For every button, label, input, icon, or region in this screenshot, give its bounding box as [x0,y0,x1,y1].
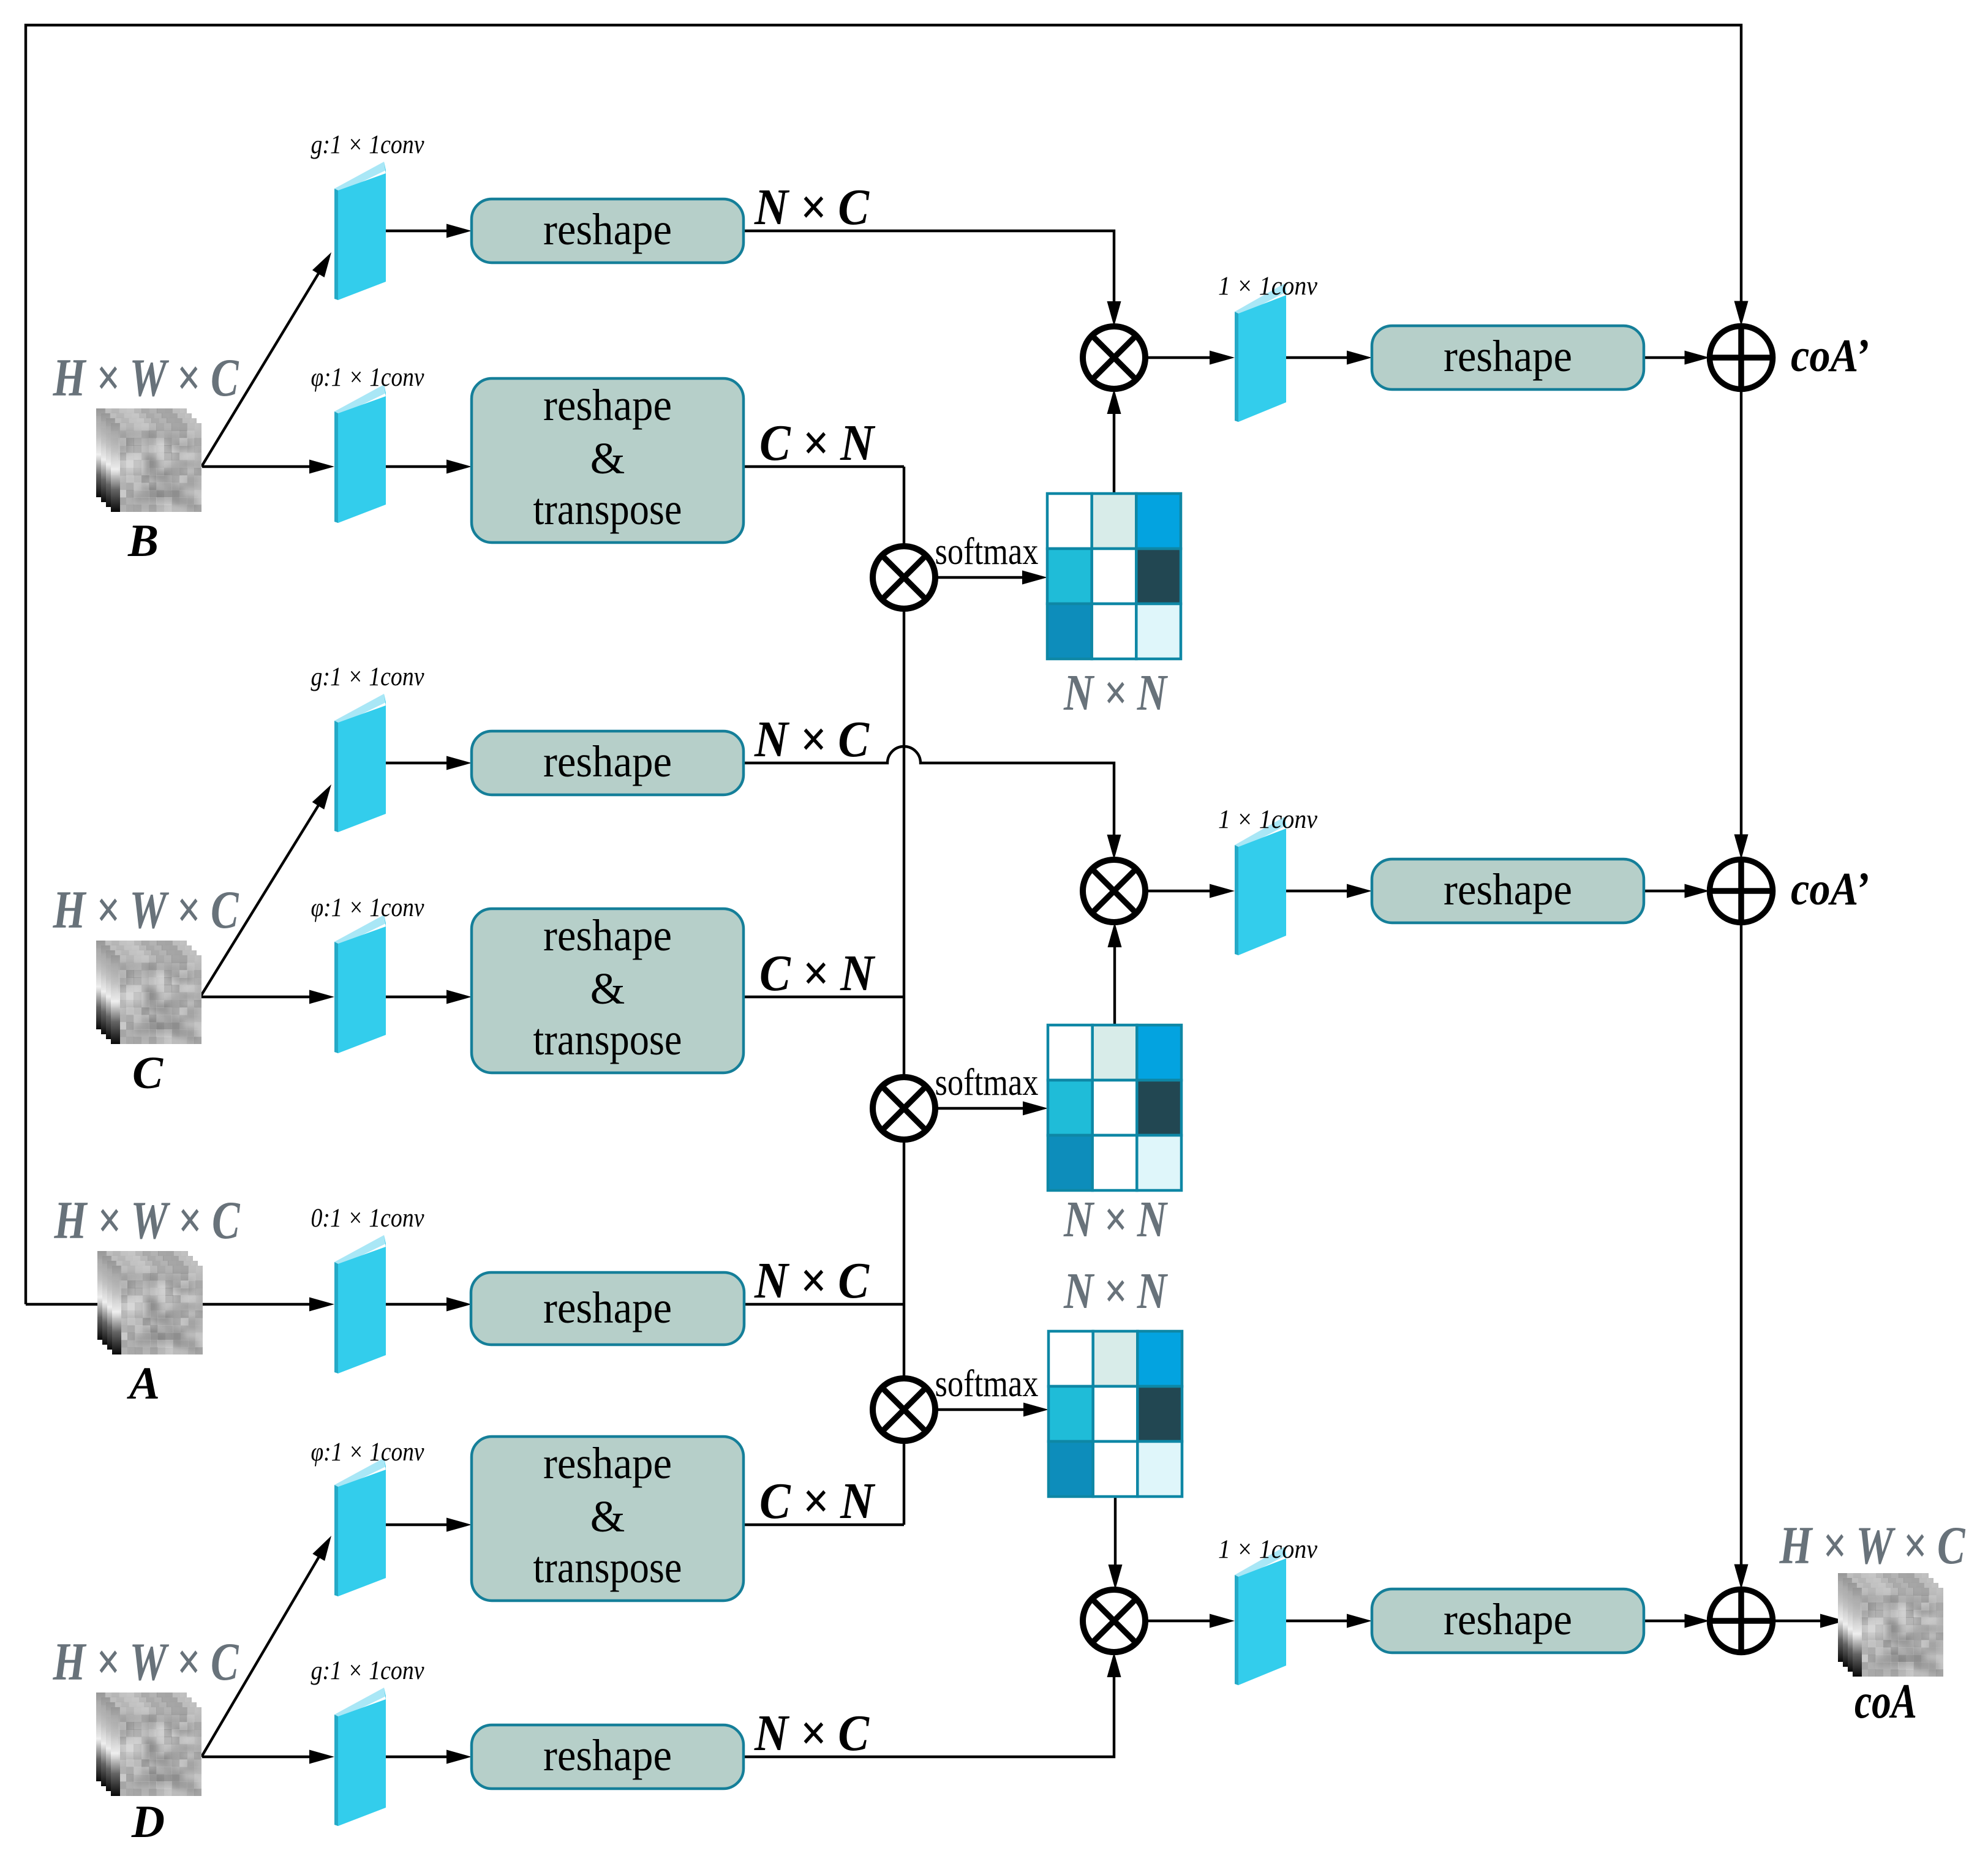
multiply node X2 (C softmax) [873,1077,935,1140]
add node row1 [1710,326,1773,389]
wire plus column row1 to row2 [1740,389,1742,836]
arrow B stack to φ conv slab [202,465,310,468]
conv slab φ (D) [334,1458,386,1596]
arrow row3 1×1conv slab to reshape [1286,1620,1347,1622]
svg-text:transpose: transpose [533,1542,682,1592]
wire C transpose C×N joins vertical line [744,996,904,998]
svg-text:g:1 × 1conv: g:1 × 1conv [311,1656,425,1685]
svg-text:reshape: reshape [543,911,672,960]
add node row3 [1710,1590,1773,1653]
svg-text:1 × 1conv: 1 × 1conv [1218,1535,1318,1564]
svg-text:reshape: reshape [1444,1595,1572,1644]
wire matrix1 up into row-1 multiply [1113,412,1115,494]
arrow θ slab to reshape (A) [386,1303,447,1306]
svg-text:0:1 × 1conv: 0:1 × 1conv [311,1204,425,1233]
arrow g slab to reshape (C) [386,762,447,764]
arrow φ slab to reshape&transpose (D) [386,1523,447,1526]
reshape box (row3) [1372,1589,1644,1653]
svg-text:reshape: reshape [1444,331,1572,381]
reshape box (B g) [472,199,744,263]
svg-text:A: A [127,1358,160,1409]
arrow softmax row2 into matrix2 [935,1107,1023,1110]
reshape & transpose box (D) [472,1437,744,1601]
svg-text:coA’: coA’ [1791,330,1869,381]
reshape box (C g) [472,731,744,795]
arrow C stack to φ conv slab [201,996,310,998]
wire D transpose C×N joins vertical line bottom [744,1523,904,1526]
reshape & transpose box (C) [472,909,744,1073]
wire A input from left rail [26,1303,153,1306]
conv slab 1×1 (row3) [1235,1547,1286,1685]
arrow A stack to θ conv slab [202,1303,310,1306]
reshape box (D g) [472,1725,744,1789]
svg-text:φ:1 × 1conv: φ:1 × 1conv [311,363,425,392]
svg-text:H × W × C: H × W × C [53,348,239,408]
svg-text:N × C: N × C [754,1705,870,1762]
svg-text:1 × 1conv: 1 × 1conv [1218,272,1318,301]
input stack B [91,405,213,517]
arrow C stack diagonal to g conv slab [200,804,319,997]
arrow row2 reshape to plus [1644,890,1685,892]
wire B transpose C×N into vertical line [744,465,904,468]
add node row2 [1710,860,1773,923]
svg-text:reshape: reshape [543,1730,672,1780]
svg-text:N × N: N × N [1063,1263,1168,1320]
arrow g slab to reshape (D) [386,1756,447,1758]
reshape & transpose box (B) [472,378,744,543]
svg-text:C × N: C × N [759,1473,876,1530]
arrow B stack diagonal to g conv slab [201,272,319,467]
wire C reshape N×C with bridge over vertical line to row-2 multiply [745,746,1114,836]
svg-text:B: B [127,516,159,566]
arrow plus row3 to coA stack [1773,1620,1821,1622]
svg-text:N × C: N × C [754,179,870,236]
reshape box (row2) [1372,859,1644,923]
svg-text:H × W × C: H × W × C [1779,1516,1966,1576]
svg-text:&: & [590,964,625,1013]
svg-text:φ:1 × 1conv: φ:1 × 1conv [311,1438,425,1467]
svg-text:coA’: coA’ [1791,863,1869,915]
svg-text:N × C: N × C [754,1252,870,1309]
arrow row1 reshape to plus [1644,356,1685,359]
arrow softmax row3 into matrix3 [935,1408,1024,1411]
svg-text:N × N: N × N [1063,1191,1168,1248]
svg-text:H × W × C: H × W × C [53,881,239,940]
svg-text:&: & [590,1492,625,1541]
wire plus column row2 to row3 [1740,923,1742,1566]
attention matrix N×N row3 [1049,1331,1182,1497]
arrow row2 1×1conv slab to reshape [1286,890,1347,892]
arrow softmax row1 into matrix1 [935,576,1023,579]
arrow φ slab to reshape&transpose (B) [386,465,447,468]
svg-text:H × W × C: H × W × C [53,1632,239,1692]
svg-text:φ:1 × 1conv: φ:1 × 1conv [311,893,425,922]
multiply node row2 output [1083,860,1145,922]
svg-text:softmax: softmax [935,531,1039,573]
svg-text:reshape: reshape [543,1438,672,1488]
svg-text:C × N: C × N [759,945,876,1002]
wire top feedback from A to coA output column [26,25,1741,1304]
arrow φ slab to reshape&transpose (C) [386,996,447,998]
svg-text:reshape: reshape [543,737,672,786]
arrow row3 multiply to 1×1conv slab [1145,1620,1210,1622]
wire matrix3 down into row-3 multiply [1114,1497,1116,1566]
attention matrix N×N row1 [1047,494,1181,659]
conv slab φ (C) [334,915,386,1053]
multiply node X1 (B·B softmax) [873,546,935,609]
svg-text:g:1 × 1conv: g:1 × 1conv [311,663,425,691]
conv slab g (D) [334,1688,386,1826]
svg-text:coA: coA [1854,1675,1917,1729]
reshape box (row1) [1372,326,1644,389]
svg-text:N × C: N × C [754,711,870,768]
arrow row3 reshape to plus [1644,1620,1685,1622]
wire D reshape N×C up into row-3 multiply [745,1675,1114,1757]
svg-text:C: C [132,1048,164,1099]
output stack coA [1833,1569,1954,1681]
multiply node row1 output [1083,326,1145,389]
multiply node X3 (A·D softmax) [873,1378,935,1441]
svg-text:transpose: transpose [533,484,682,534]
wire matrix2 up into row-2 multiply [1113,945,1116,1025]
svg-text:reshape: reshape [543,380,672,430]
conv slab φ (B) [334,385,386,523]
wire main vertical attention line [903,467,905,1525]
arrow row1 1×1conv slab to reshape [1286,356,1347,359]
conv slab g (C) [334,694,386,832]
svg-text:1 × 1conv: 1 × 1conv [1218,805,1318,834]
svg-text:softmax: softmax [935,1062,1039,1103]
svg-text:C × N: C × N [759,415,876,472]
svg-text:reshape: reshape [1444,865,1572,914]
svg-text:softmax: softmax [935,1363,1039,1405]
input stack D [91,1689,213,1801]
reshape box (A) [471,1272,744,1345]
arrow row1 multiply to 1×1conv slab [1145,356,1210,359]
svg-text:N × N: N × N [1063,664,1168,721]
svg-text:reshape: reshape [543,1283,672,1332]
conv slab 1×1 (row2) [1235,817,1286,955]
svg-text:D: D [131,1797,165,1847]
input stack C [91,937,213,1049]
arrow D stack diagonal to φ conv slab [201,1556,320,1757]
svg-text:reshape: reshape [543,205,672,254]
svg-text:g:1 × 1conv: g:1 × 1conv [311,130,425,159]
attention matrix N×N row2 [1048,1025,1181,1190]
arrow row2 multiply to 1×1conv slab [1145,890,1210,892]
input stack A [92,1247,214,1359]
arrow g slab to reshape (B) [386,230,447,232]
arrow D stack to g conv slab [202,1756,310,1758]
wire B reshape N×C to row-1 multiply [745,231,1114,303]
multiply node row3 output [1083,1590,1145,1652]
svg-text:H × W × C: H × W × C [54,1191,241,1250]
svg-text:transpose: transpose [533,1015,682,1064]
svg-text:&: & [590,434,625,483]
wire A reshape N×C joins vertical line [744,1303,904,1306]
conv slab 1×1 (row1) [1235,284,1286,422]
conv slab θ (A) [334,1235,386,1373]
conv slab g (B) [334,162,386,300]
